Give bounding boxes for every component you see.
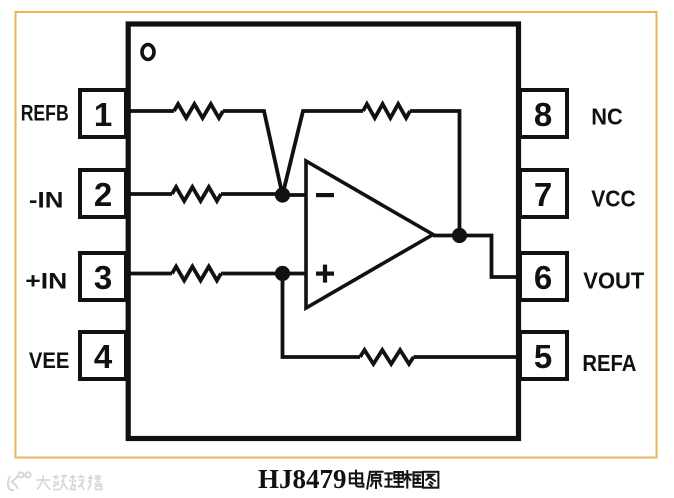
svg-text:6: 6 bbox=[534, 259, 552, 296]
pin label NC bbox=[591, 104, 623, 130]
svg-text:4: 4 bbox=[94, 338, 113, 375]
wire R5 to pin 5 bbox=[414, 355, 521, 359]
wire R1 to node A (V left diagonal) bbox=[223, 111, 283, 195]
svg-text:5: 5 bbox=[534, 338, 552, 375]
svg-text:REFA: REFA bbox=[582, 350, 636, 376]
svg-text:REFB: REFB bbox=[21, 101, 69, 126]
wire from pin 2 bbox=[126, 192, 172, 196]
svg-text:7: 7 bbox=[534, 176, 552, 213]
wire R4 to node B bbox=[221, 272, 283, 276]
wire node B down to bottom rail bbox=[283, 274, 361, 358]
svg-text:3: 3 bbox=[94, 259, 112, 296]
wire R3 to node A bbox=[221, 192, 283, 196]
svg-text:8: 8 bbox=[534, 96, 552, 133]
pin-1 indicator circle bbox=[142, 45, 154, 60]
wire feedback resistor to output node bbox=[410, 111, 460, 236]
pin label REFA bbox=[582, 350, 636, 376]
理 bbox=[385, 472, 403, 487]
wire node A to feedback (V right diagonal) bbox=[283, 111, 364, 195]
wire node B to op-amp non-inverting input bbox=[283, 272, 307, 276]
watermark text 大数跨境 bbox=[37, 475, 103, 490]
junction node A (inverting input) bbox=[275, 187, 290, 202]
pin 6 box bbox=[520, 253, 567, 300]
图 bbox=[423, 472, 438, 488]
resistor R5 (to REFA) bbox=[360, 350, 414, 364]
wire op-amp output to pin 6 bbox=[433, 236, 520, 278]
svg-text:+IN: +IN bbox=[25, 269, 67, 294]
pin label VEE bbox=[29, 348, 70, 373]
svg-text:NC: NC bbox=[591, 104, 623, 130]
svg-text:VCC: VCC bbox=[591, 186, 636, 212]
resistor R4 bbox=[172, 267, 221, 281]
wire from pin 3 bbox=[126, 272, 172, 276]
pin 2 box bbox=[80, 170, 126, 217]
junction node B (non-inverting input) bbox=[275, 266, 290, 281]
pin label REFB bbox=[21, 101, 69, 126]
svg-text:1: 1 bbox=[94, 96, 112, 133]
caption HJ8479 bbox=[258, 464, 347, 494]
wire node A to op-amp inverting input bbox=[283, 193, 307, 197]
svg-text:HJ8479: HJ8479 bbox=[258, 464, 347, 494]
resistor R3 bbox=[172, 187, 221, 201]
feedback resistor R2 bbox=[363, 104, 410, 118]
pin label VOUT bbox=[583, 268, 645, 294]
watermark logo bbox=[8, 472, 31, 490]
pin 1 box bbox=[80, 90, 126, 137]
框 bbox=[404, 471, 422, 488]
svg-text:2: 2 bbox=[94, 176, 112, 213]
pin 3 box bbox=[80, 253, 126, 300]
junction node OUT bbox=[452, 228, 467, 243]
pin 8 box bbox=[520, 90, 567, 137]
pin 7 box bbox=[520, 170, 567, 217]
resistor R1 bbox=[174, 104, 223, 118]
原 bbox=[367, 472, 382, 489]
pin 4 box bbox=[80, 332, 126, 379]
svg-text:VEE: VEE bbox=[29, 348, 70, 373]
IC package outline U1 body bbox=[128, 24, 518, 439]
电 bbox=[350, 471, 364, 487]
svg-text:-IN: -IN bbox=[29, 188, 64, 213]
pin 5 box bbox=[520, 332, 567, 379]
svg-text:VOUT: VOUT bbox=[583, 268, 645, 294]
op-amp U1 bbox=[306, 161, 433, 308]
pin label -IN bbox=[29, 188, 64, 213]
pin label +IN bbox=[25, 269, 67, 294]
pin label VCC bbox=[591, 186, 636, 212]
caption 电原理框图 (drawn glyphs) bbox=[350, 471, 439, 489]
wire from pin 1 bbox=[126, 109, 174, 113]
